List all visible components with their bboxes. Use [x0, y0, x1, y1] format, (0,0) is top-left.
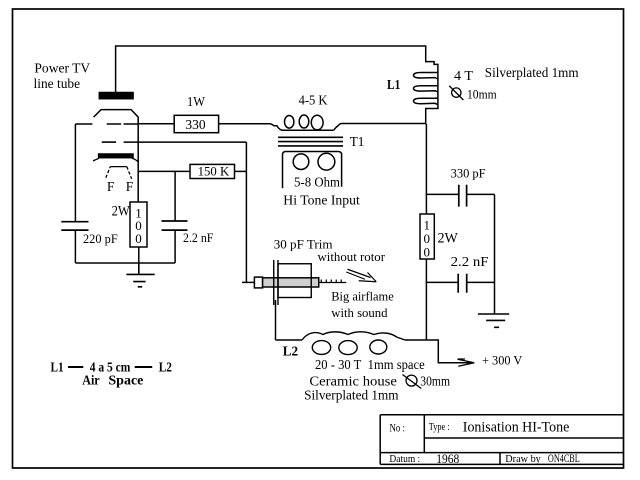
label 2W (left): [112, 203, 131, 219]
wire cathode node to resistor 150K: [138, 170, 190, 172]
transformer T1 secondary winding: [283, 152, 342, 189]
coil L1 (4 T silverplated): [414, 72, 438, 105]
svg-text:ON4CBL: ON4CBL: [548, 453, 580, 465]
capacitor 330 pF: [426, 185, 494, 207]
label Hi Tone Input: [283, 194, 360, 209]
svg-text:No :: No :: [390, 421, 406, 435]
wire grid node vertical down to trimmer: [245, 142, 247, 282]
svg-text:F: F: [126, 179, 134, 194]
title block label Type: Ionisation HI-Tone: [429, 420, 570, 436]
coil L2 (20-30 T): [276, 332, 427, 355]
transformer T1 primary winding: [283, 115, 342, 130]
wire resistor 100 bottom to L2 node: [425, 259, 427, 340]
wire resistor 330 to transformer T1 primary: [219, 124, 283, 131]
svg-text:T1: T1: [350, 135, 365, 150]
title block: [380, 415, 623, 465]
transformer T1 core: [278, 137, 343, 146]
wire L2 node to +300V: [426, 340, 474, 363]
svg-text:L2: L2: [283, 343, 299, 358]
transformer T1 secondary label 5-8 Ohm: [294, 175, 340, 190]
resistor R 150K: [190, 163, 235, 178]
svg-text:Power TV: Power TV: [34, 61, 90, 76]
wire 150K to grid node: [235, 170, 247, 172]
wire grid g2 to resistor 330: [138, 123, 174, 125]
label Big airflame: [331, 289, 394, 304]
wire grid g1 to 150K node: [124, 141, 247, 143]
svg-text:Draw by: Draw by: [505, 453, 541, 465]
svg-text:Type :: Type :: [429, 421, 450, 433]
transformer T1 primary label 4-5 K: [299, 93, 328, 108]
svg-text:Ceramic house: Ceramic house: [309, 373, 397, 388]
svg-text:+ 300 V: + 300 V: [482, 353, 523, 368]
label 2.2 nF (left): [183, 230, 213, 245]
svg-text:Hi Tone Input: Hi Tone Input: [283, 194, 360, 209]
heater pin label F: [126, 179, 134, 194]
svg-text:Big airflame: Big airflame: [331, 289, 394, 304]
wire right branch vertical to ground: [494, 194, 496, 314]
svg-text:10mm: 10mm: [467, 86, 497, 101]
tube V1 label "Power TV line tube": [34, 61, 91, 92]
svg-text:Space: Space: [108, 372, 143, 387]
wire main vertical L1 bottom to resistor 100: [425, 124, 427, 214]
wire T1 primary to L1 bottom node: [342, 123, 427, 125]
transformer T1 label: [350, 135, 365, 150]
wire screen lead down left: [74, 124, 76, 222]
svg-text:30mm: 30mm: [420, 373, 450, 388]
tube cathode: [93, 154, 138, 162]
label Ceramic house: [309, 373, 397, 388]
svg-text:line tube: line tube: [34, 76, 81, 91]
svg-text:2.2 nF: 2.2 nF: [451, 254, 489, 269]
title block label No:: [390, 421, 406, 435]
label 20 - 30 T 1mm space: [315, 357, 425, 372]
wire cathode resistor bottom to rail: [138, 247, 140, 263]
label L1 spacing note: [51, 359, 173, 387]
resistor R 100 (right, 2W): [420, 214, 434, 260]
svg-text:0: 0: [135, 231, 142, 246]
svg-text:L1: L1: [51, 359, 64, 374]
capacitor 2.2 nF (left): [162, 171, 188, 263]
svg-text:20 - 30 T 1mm space: 20 - 30 T 1mm space: [315, 357, 425, 372]
wire trimmer down to L2: [275, 300, 277, 340]
tube grid g1 (dashed): [102, 141, 116, 143]
resistor R 100 (cathode, 2W): [130, 202, 147, 247]
svg-text:0: 0: [424, 245, 431, 260]
label 330 pF: [451, 165, 486, 180]
label 30 pF Trim: [274, 237, 333, 252]
label Silverplated 1mm (bottom): [304, 388, 399, 403]
svg-text:150 K: 150 K: [198, 163, 230, 178]
svg-text:330: 330: [185, 117, 206, 132]
tube envelope (hat + right wall): [94, 110, 139, 202]
svg-text:4 T: 4 T: [454, 68, 474, 83]
label + 300 V: [482, 353, 523, 368]
svg-text:1W: 1W: [187, 94, 205, 109]
svg-text:F: F: [107, 179, 115, 194]
trimmer capacitor 30 pF: rotor plates: [274, 260, 278, 305]
capacitor 2.2 nF (right): [426, 274, 494, 293]
resistor 330 rating label 1W: [187, 94, 205, 109]
label 220 pF: [83, 231, 118, 246]
svg-text:L1: L1: [387, 77, 401, 92]
wire grid g2 left lead: [75, 123, 92, 125]
svg-text:220 pF: 220 pF: [83, 231, 118, 246]
label without rotor: [318, 249, 386, 264]
arrow +300V: [458, 359, 475, 366]
trimmer capacitor 30 pF: end block: [254, 277, 262, 288]
label with sound: [331, 305, 388, 320]
arrow pointer to spark gap: [346, 269, 376, 282]
tube grid g2 (dashed): [107, 123, 138, 125]
svg-text:Silverplated 1mm: Silverplated 1mm: [304, 388, 399, 403]
title block label Draw by ON4CBL: [505, 453, 580, 465]
svg-text:with sound: with sound: [331, 305, 388, 320]
wire L1 bottom to main vertical: [426, 104, 438, 124]
svg-text:2.2 nF: 2.2 nF: [183, 230, 213, 245]
trimmer capacitor 30 pF: broken shaft (without rotor): [319, 280, 347, 283]
label Silverplated 1mm (top): [485, 65, 579, 80]
wire ground rail: [75, 262, 175, 264]
svg-text:330 pF: 330 pF: [451, 165, 486, 180]
heater pin label F: [107, 179, 115, 194]
svg-text:Air: Air: [82, 372, 100, 387]
diameter symbol, label 10mm: [449, 86, 497, 102]
wire anode top cap to L1 top: [116, 46, 438, 93]
label 2W (right): [438, 231, 459, 247]
wire grid node to trimmer: [242, 281, 254, 283]
svg-text:Silverplated 1mm: Silverplated 1mm: [485, 65, 579, 80]
svg-text:5-8 Ohm: 5-8 Ohm: [294, 175, 340, 190]
ground (left): [126, 263, 154, 287]
svg-text:L2: L2: [159, 359, 172, 374]
resistor R 330: [174, 115, 218, 132]
svg-text:Ionisation HI-Tone: Ionisation HI-Tone: [463, 420, 570, 436]
trimmer capacitor 30 pF: stator frame: [278, 264, 311, 298]
capacitor 220 pF: [61, 222, 88, 263]
svg-text:4-5 K: 4-5 K: [299, 93, 328, 108]
coil L1 label: [387, 77, 401, 92]
ground (right): [478, 314, 509, 327]
svg-text:Datum :: Datum :: [389, 453, 420, 465]
coil L2 label: [283, 343, 299, 358]
svg-text:2W: 2W: [112, 203, 131, 219]
svg-text:1968: 1968: [436, 452, 459, 466]
diameter symbol, label 30mm: [403, 373, 451, 388]
tube anode top cap: [99, 93, 133, 99]
tube heater: [106, 167, 132, 179]
title block label Datum: 1968: [389, 452, 459, 466]
svg-text:without rotor: without rotor: [318, 249, 386, 264]
label 2.2 nF (right): [451, 254, 489, 269]
label 4 T: [454, 68, 474, 83]
trimmer capacitor 30 pF: body: [263, 278, 319, 287]
svg-text:2W: 2W: [438, 231, 459, 247]
